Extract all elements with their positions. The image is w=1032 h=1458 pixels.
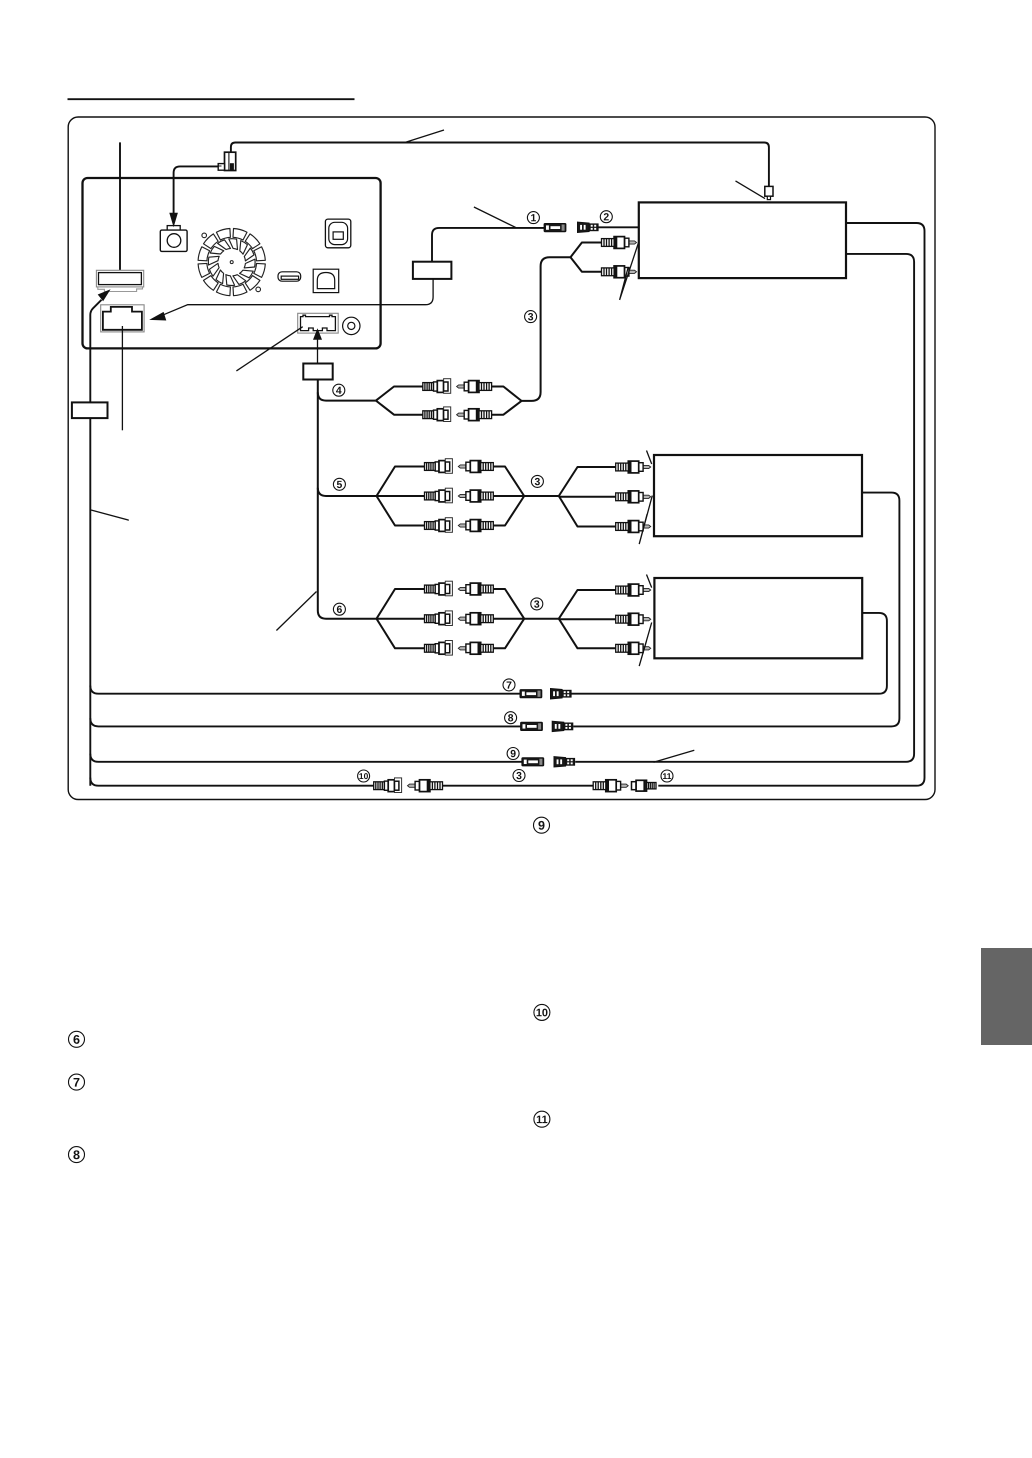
circled 10 (row)	[358, 770, 370, 782]
row 10 right RCA pair: male	[593, 780, 628, 792]
svg-text:8: 8	[508, 713, 514, 724]
GPS antenna jack icon	[160, 213, 187, 252]
circled 6	[333, 603, 345, 616]
circled 3 (row 5)	[531, 475, 543, 488]
title underline	[68, 98, 355, 100]
circled 9 (caption below diagram)	[534, 817, 550, 833]
circled 4	[333, 384, 345, 397]
svg-text:10: 10	[359, 771, 369, 781]
callout line to amp mini plug	[736, 181, 766, 199]
circled 3 (vertical cable)	[525, 311, 537, 324]
wire: row 9 left segment	[90, 754, 522, 762]
optical digital output connector	[325, 219, 350, 248]
wire: speaker box 1 output to row 8	[573, 493, 899, 727]
row 6 Y-split wires	[377, 589, 616, 648]
callout line to lead 1	[474, 207, 516, 228]
row 10 left RCA pair: male	[408, 780, 443, 792]
wire: speaker box 2 output to row 7	[571, 613, 887, 694]
circled 11 (row)	[661, 770, 673, 782]
wire: trunk from label box 3 down through rows 4,5,6	[318, 380, 377, 619]
svg-text:5: 5	[337, 480, 343, 491]
row 10 left RCA pair: female	[374, 778, 402, 793]
USB type-B connector	[313, 269, 339, 292]
speaker box 2	[654, 578, 862, 658]
svg-text:6: 6	[73, 1033, 80, 1047]
HDMI connector	[278, 272, 301, 281]
svg-text:3: 3	[535, 477, 541, 488]
antenna plug on head unit top	[218, 152, 236, 170]
circled 7	[503, 679, 515, 692]
callout line on row 9	[654, 750, 695, 762]
row 4 RCA pair bottom: male	[457, 409, 492, 421]
connector pair 2 (female spade)	[578, 222, 599, 232]
svg-text:11: 11	[536, 1114, 548, 1126]
svg-text:9: 9	[538, 819, 545, 833]
svg-text:7: 7	[73, 1076, 80, 1090]
svg-text:7: 7	[506, 681, 512, 692]
svg-text:4: 4	[336, 386, 342, 397]
row 7 connector pair: female spade	[551, 689, 572, 699]
row 4 RCA pair bottom: female	[423, 407, 451, 422]
row 6 RCA pair 3: female	[425, 641, 453, 656]
row 5 RCA pair 2: female	[425, 488, 453, 503]
wire: from pair 2 into amp	[598, 226, 639, 228]
channel marks at speaker box 2	[639, 575, 652, 667]
wire: amp output 2 to row 9	[575, 254, 914, 762]
row 4 RCA pair top: female	[423, 379, 451, 394]
svg-text:11: 11	[663, 771, 672, 781]
wire: left harness trunk with arrow to connector A	[90, 289, 110, 785]
wire: power antenna lead from plug to remote-amp top connector	[231, 143, 769, 187]
row 6 RCA pair 3: male	[458, 642, 493, 654]
row 5 RCA pair 1: female	[425, 459, 453, 474]
row 8 connector pair: male spade	[521, 722, 543, 730]
svg-text:8: 8	[73, 1148, 80, 1162]
svg-text:3: 3	[528, 312, 534, 323]
row 5 RCA pair 3: male	[458, 520, 493, 532]
circled 9 (row)	[507, 748, 519, 761]
circled 5	[333, 478, 345, 491]
row 4 RCA pair top: male	[457, 381, 492, 393]
circled 7 (legend)	[69, 1074, 85, 1090]
callout line to antenna wire	[404, 130, 444, 143]
row 9 connector pair: male spade	[522, 758, 544, 766]
remote amplifier box	[639, 202, 846, 278]
wire: row 8 left segment	[90, 718, 520, 726]
connector B (main harness) on head unit	[101, 305, 144, 332]
row 5 RCA pair 3: female	[425, 518, 453, 533]
svg-text:6: 6	[337, 605, 343, 616]
connector A (antenna input) on head unit	[96, 270, 143, 291]
callout line on left trunk	[91, 510, 129, 520]
RCA plug into amp (bottom)	[602, 266, 637, 278]
Y-cable into amp: trunk from cable 3	[522, 243, 603, 401]
row 5 plug 3 into speaker box 1	[616, 521, 651, 533]
row 5 plug 1 into speaker box 1	[616, 461, 651, 473]
AV input RCA jack on head unit	[343, 317, 360, 334]
circled 3 (row 10)	[513, 770, 525, 783]
row 6 RCA pair 2: female	[425, 611, 453, 626]
row 10 right RCA pair: female socket	[632, 780, 657, 791]
arrow from label box into connector C	[313, 328, 322, 363]
connector C (24-pin) on head unit	[298, 313, 339, 333]
row 4 Y-split wires	[376, 387, 522, 415]
circled 6 (legend)	[69, 1031, 85, 1047]
label box 2 (fuse) inline on power antenna wire	[413, 262, 452, 279]
thin lead line from connector B	[121, 326, 123, 430]
circled 3 (row 6)	[531, 598, 543, 611]
label box on left trunk	[72, 402, 108, 418]
cooling fan	[198, 229, 265, 296]
wire: row 10 left segment	[90, 778, 373, 786]
row 6 RCA pair 1: female	[425, 581, 453, 596]
outer frame	[68, 117, 935, 800]
row 6 plug 3 into speaker box 2	[616, 642, 651, 654]
wire: antenna plug cable with arrow into GPS jack	[174, 166, 219, 213]
circled 8 (legend)	[69, 1147, 85, 1163]
wire: lead 1 from label box 2 up and right to bullet pair	[432, 228, 544, 262]
row 6 plug 2 into speaker box 2	[616, 613, 651, 625]
row 8 connector pair: female spade	[552, 721, 573, 731]
svg-text:9: 9	[510, 749, 516, 760]
row 5 RCA pair 1: male	[458, 461, 493, 473]
row 9 connector pair: female spade	[554, 757, 575, 767]
row 7 connector pair: male spade	[520, 690, 542, 698]
circled 10 (legend)	[534, 1004, 550, 1020]
row 5 plug 2 into speaker box 1	[616, 491, 651, 503]
row 6 RCA pair 1: male	[458, 583, 493, 595]
wire: row 7 left segment	[90, 686, 520, 694]
svg-text:3: 3	[516, 771, 522, 782]
wire: amp output 1 to row 10	[658, 223, 924, 786]
circled 1	[527, 212, 539, 225]
RCA plug into amp (top)	[602, 237, 637, 249]
gray side tab	[981, 948, 1032, 1045]
circled 11 (legend)	[534, 1111, 550, 1127]
callout line to connector C	[236, 327, 302, 371]
channel marks at amp input	[620, 242, 639, 300]
svg-text:2: 2	[603, 212, 609, 223]
svg-text:1: 1	[531, 213, 537, 224]
head unit rear panel	[83, 178, 381, 348]
row 6 RCA pair 2: male	[458, 613, 493, 625]
circled 2	[600, 211, 612, 224]
connector pair 1 (male spade)	[544, 224, 566, 232]
row 5 RCA pair 2: male	[458, 490, 493, 502]
row 5 Y-split wires	[377, 467, 616, 527]
wire: FM/AM antenna lead (vertical into connector A)	[119, 142, 121, 270]
row 6 plug 1 into speaker box 2	[616, 584, 651, 596]
label box 3 above connector C	[303, 364, 332, 380]
channel marks at speaker box 1	[639, 451, 652, 545]
svg-text:3: 3	[534, 600, 540, 611]
wire: row 10 middle segment	[443, 785, 594, 787]
svg-text:10: 10	[536, 1007, 548, 1019]
callout line to row 6 trunk	[276, 592, 316, 631]
callout with arrow into connector B	[149, 279, 433, 321]
speaker box 1	[654, 455, 862, 536]
antenna mini plug on amp top	[765, 186, 773, 199]
circled 8	[505, 712, 517, 725]
